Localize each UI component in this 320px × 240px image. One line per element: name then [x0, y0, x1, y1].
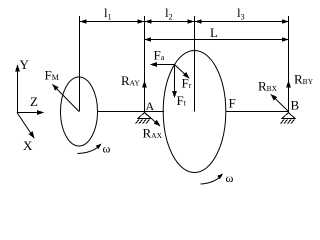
force Fa line: [151, 64, 175, 66]
dimension line l1 l2 l3: [80, 21, 289, 23]
svg-text:A: A: [146, 99, 155, 113]
svg-text:Z: Z: [30, 94, 38, 109]
arrowhead Ft: [172, 91, 177, 98]
extension line at support A (x=144): [144, 16, 146, 112]
arrowhead omega2: [217, 172, 224, 179]
extension line at gear center (x=195): [194, 16, 196, 112]
support A triangle: [138, 113, 151, 119]
svg-text:ω: ω: [103, 142, 111, 156]
axis Z line: [17, 112, 44, 114]
axis Y line: [17, 65, 19, 113]
arrowhead axis Y: [15, 65, 20, 72]
arrowhead omega1: [96, 142, 103, 149]
dim arrowheads l3: [195, 19, 202, 23]
arrowhead RBY: [286, 81, 291, 88]
svg-text:L: L: [210, 25, 218, 40]
svg-text:Y: Y: [20, 57, 30, 72]
svg-text:B: B: [291, 98, 300, 113]
force Fr line: [175, 65, 190, 79]
extension line at support B (x=289): [288, 16, 290, 112]
arrowhead Fa: [150, 62, 157, 67]
reaction RAX line: [145, 113, 161, 127]
arrowhead axis X: [29, 131, 37, 140]
arrowhead axis Z: [37, 110, 44, 115]
reaction RBX line: [271, 95, 289, 112]
shaft segment gear to support B: [226, 111, 289, 113]
support B hatching: [281, 120, 295, 124]
omega arrow pulley1: [78, 146, 100, 154]
gear ellipse: [163, 51, 226, 173]
arrowhead RAY: [142, 81, 147, 88]
axis X line: [17, 113, 34, 139]
dimension line L: [145, 39, 289, 41]
force Ft line: [174, 65, 176, 98]
svg-text:ω: ω: [226, 171, 234, 185]
arrowhead RAX: [154, 120, 163, 128]
arrowhead Fr: [183, 72, 192, 80]
svg-text:X: X: [23, 138, 33, 153]
dim arrowheads L: [145, 37, 152, 41]
force FM line: [53, 85, 80, 112]
arrowhead RBX: [269, 92, 278, 100]
svg-text:F: F: [229, 96, 236, 111]
omega arrow gear: [201, 176, 222, 184]
support A hatching: [136, 120, 150, 124]
arrowhead FM: [50, 82, 58, 90]
shaft segment pulley1 to gear: [98, 111, 165, 113]
dim arrowheads l1: [80, 19, 87, 23]
dim arrowheads l2: [145, 19, 152, 23]
pulley 1 ellipse: [61, 77, 98, 146]
support B triangle: [282, 113, 295, 119]
extension line at pulley 1 (x=80): [79, 16, 81, 112]
